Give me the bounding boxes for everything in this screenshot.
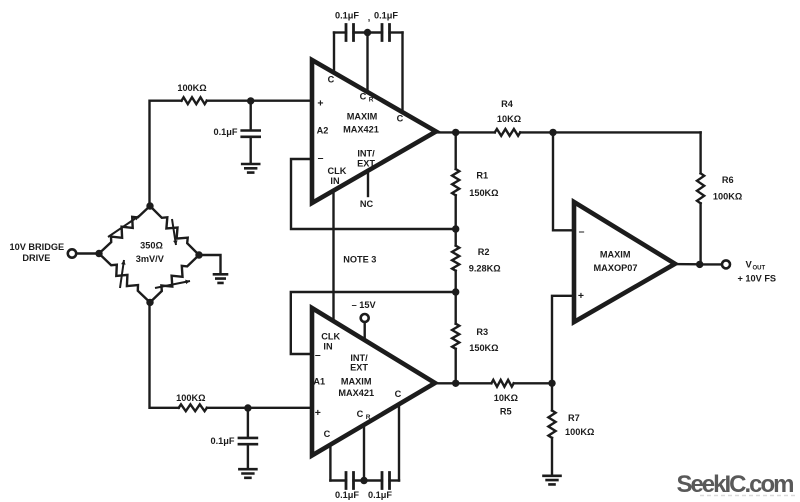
wire A1 cap network left xyxy=(330,479,346,481)
wire junction up to op07 plus xyxy=(552,296,574,384)
label A1 INT/EXT pin xyxy=(350,353,368,372)
svg-text:IN: IN xyxy=(330,176,340,186)
label 100K bottom xyxy=(176,393,205,403)
capacitor 0.1uF bottom filter xyxy=(239,438,257,444)
label 0.1uF bottom filter xyxy=(210,436,234,446)
label R7 value xyxy=(565,427,594,437)
label R7 xyxy=(568,413,580,423)
wire bridge right node to ground xyxy=(199,255,221,273)
wire feedback top to R6 xyxy=(553,131,701,133)
label R1 value xyxy=(469,188,498,198)
label comma separator xyxy=(368,12,371,22)
capacitor C1 0.1uF A2 left xyxy=(346,25,354,41)
label R5 value xyxy=(494,393,518,403)
svg-text:0.1μF: 0.1μF xyxy=(335,490,359,500)
label R3 xyxy=(476,327,488,337)
wire drive terminal to bridge left node xyxy=(76,252,99,254)
svg-text:INT/: INT/ xyxy=(357,148,375,158)
svg-text:100KΩ: 100KΩ xyxy=(177,83,206,93)
label A1 MAXIM MAX421 xyxy=(338,377,374,398)
svg-text:–: – xyxy=(318,152,324,164)
svg-text:+ 10V FS: + 10V FS xyxy=(738,273,777,283)
svg-text:0.1μF: 0.1μF xyxy=(368,490,392,500)
svg-text:10V BRIDGE: 10V BRIDGE xyxy=(9,242,64,252)
svg-text:DRIVE: DRIVE xyxy=(22,253,50,263)
wire R4 to minus node xyxy=(520,131,553,133)
svg-text:150KΩ: 150KΩ xyxy=(469,343,498,353)
svg-text:150KΩ: 150KΩ xyxy=(469,188,498,198)
svg-text:0.1μF: 0.1μF xyxy=(374,10,398,20)
wire node to R4 xyxy=(456,131,495,133)
wire R5 to plus junction xyxy=(514,382,552,384)
svg-text:R6: R6 xyxy=(722,175,734,185)
wire A1 cap network middle xyxy=(354,479,383,481)
svg-text:EXT: EXT xyxy=(350,363,368,373)
svg-text:R5: R5 xyxy=(500,407,512,417)
label A1 CLK IN pin xyxy=(321,331,340,351)
label R4 value xyxy=(497,114,521,124)
wire A1 cap network right xyxy=(390,479,400,481)
capacitor C3 0.1uF A1 left xyxy=(346,473,354,489)
node bridge left xyxy=(95,250,102,257)
svg-text:SeekIC.com: SeekIC.com xyxy=(676,471,793,498)
wire A2 output node to R1 xyxy=(455,132,457,169)
wire A1 output to node xyxy=(433,382,456,384)
svg-text:NOTE 3: NOTE 3 xyxy=(343,254,376,264)
node R5-R7 junction xyxy=(548,380,555,387)
pin A2 NC xyxy=(367,171,369,196)
resistor R3 150K xyxy=(452,324,459,349)
svg-text:MAX421: MAX421 xyxy=(338,388,374,398)
label R2 xyxy=(478,247,490,257)
svg-text:350Ω: 350Ω xyxy=(140,241,163,251)
label A2 minus input xyxy=(318,152,324,164)
svg-text:0.1μF: 0.1μF xyxy=(210,436,234,446)
op-amp A2 MAX421 triangle xyxy=(312,60,436,203)
svg-text:R7: R7 xyxy=(568,413,580,423)
svg-text:R4: R4 xyxy=(501,99,514,109)
svg-text:100KΩ: 100KΩ xyxy=(176,393,205,403)
svg-text:–: – xyxy=(579,226,585,238)
ground R7 xyxy=(544,476,561,485)
strain-gauge resistor bridge arm top-right xyxy=(150,206,199,255)
label A2 INT/EXT pin xyxy=(357,148,375,168)
label A1 CR xyxy=(357,409,371,421)
svg-text:+: + xyxy=(317,98,323,110)
node A1 cap junction xyxy=(360,477,367,484)
svg-text:R2: R2 xyxy=(478,247,490,257)
label A2 designator xyxy=(317,125,329,135)
wire junction down to op07 minus xyxy=(553,132,574,230)
node bridge right xyxy=(195,251,202,258)
node bridge bottom xyxy=(146,299,153,306)
label R5 xyxy=(500,407,512,417)
wire A1 feedback minus input to R2-R3 junction xyxy=(291,292,456,354)
watermark SeekIC.com xyxy=(676,471,797,498)
label A1 C right xyxy=(395,389,402,399)
wire filter cap to ground top xyxy=(249,137,251,164)
wire A2 output to node xyxy=(434,131,456,133)
strain-gauge resistor bridge arm bottom-right xyxy=(150,255,199,302)
wire bridge bottom node down and right to 100K resistor xyxy=(150,302,179,407)
node output xyxy=(696,261,703,268)
svg-text:100KΩ: 100KΩ xyxy=(713,191,742,201)
label A1 plus input xyxy=(315,407,321,419)
svg-text:NC: NC xyxy=(360,199,374,209)
wire R2 to junction xyxy=(455,271,457,324)
svg-text:MAXOP07: MAXOP07 xyxy=(594,263,638,273)
label R6 xyxy=(722,175,734,185)
svg-text:C: C xyxy=(324,429,331,439)
svg-text:– 15V: – 15V xyxy=(352,300,377,310)
label NC xyxy=(360,199,374,209)
svg-text:R3: R3 xyxy=(476,327,488,337)
pin A1 INT/EXT to -15V xyxy=(364,322,366,340)
label A2 plus input xyxy=(317,98,323,110)
label A1 minus input xyxy=(315,349,321,361)
strain-gauge resistor bridge arm bottom-left xyxy=(99,254,150,303)
wire node to R5 xyxy=(456,382,492,384)
wire node to filter cap bottom xyxy=(247,408,249,438)
wire op07 output to node xyxy=(673,263,700,266)
resistor R6 100K xyxy=(697,173,704,203)
node R1-R2 junction xyxy=(452,225,459,232)
label A2 CR xyxy=(360,91,374,103)
ground bridge right xyxy=(214,274,227,283)
svg-text:,: , xyxy=(368,12,371,22)
svg-text:10KΩ: 10KΩ xyxy=(494,393,518,403)
ground top filter xyxy=(242,164,259,173)
wire R7 top lead xyxy=(551,383,553,410)
resistor R2 9.28K xyxy=(452,246,459,271)
svg-text:MAXIM: MAXIM xyxy=(347,111,378,121)
svg-text:–: – xyxy=(315,349,321,361)
label 0.1uF A1 right cap xyxy=(368,490,392,500)
resistor 100K top xyxy=(182,97,207,104)
pin A1 C left xyxy=(329,445,331,481)
svg-text:C: C xyxy=(328,75,335,85)
svg-text:C: C xyxy=(395,389,402,399)
label A2 CLK IN pin xyxy=(328,166,347,186)
svg-text:C: C xyxy=(357,409,364,419)
label 0.1uF A2 left cap xyxy=(335,10,359,20)
node bridge top xyxy=(146,202,153,209)
wire A2 feedback minus input to R1-R2 junction xyxy=(291,159,456,229)
label A2 MAXIM MAX421 xyxy=(343,111,379,134)
resistor 100K bottom xyxy=(179,404,207,411)
pin A2 CR middle xyxy=(366,33,368,93)
svg-text:9.28KΩ: 9.28KΩ xyxy=(469,263,501,273)
label R3 value xyxy=(469,343,498,353)
label A2 C right xyxy=(397,113,404,123)
resistor R4 10K xyxy=(495,129,520,136)
svg-text:OUT: OUT xyxy=(753,266,766,272)
resistor R5 10K xyxy=(491,380,513,387)
label VOUT xyxy=(746,259,766,272)
node A2 cap junction xyxy=(364,29,371,36)
terminal VOUT xyxy=(722,260,730,268)
label 0.1uF top filter xyxy=(213,127,237,137)
pin A2 C right xyxy=(401,33,403,113)
terminal minus 15V supply xyxy=(361,314,369,322)
label A1 C left xyxy=(324,429,331,439)
svg-text:C: C xyxy=(397,113,404,123)
ground bottom filter xyxy=(239,469,256,478)
label 0.1uF A1 left cap xyxy=(335,490,359,500)
svg-text:CLK: CLK xyxy=(328,166,347,176)
pin A1 CR middle xyxy=(363,425,365,481)
wire A2 cap network middle xyxy=(354,31,383,33)
wire bridge top node up and right to 100K resistor xyxy=(150,101,182,206)
svg-text:+: + xyxy=(315,407,321,419)
svg-text:IN: IN xyxy=(323,341,333,351)
node A2 output xyxy=(452,129,459,136)
label bridge value 350 ohm 3mV/V xyxy=(136,241,165,264)
svg-text:R: R xyxy=(369,96,374,103)
svg-text:MAXIM: MAXIM xyxy=(341,377,372,387)
svg-text:A2: A2 xyxy=(317,125,329,135)
wire output node to terminal xyxy=(700,263,722,265)
pin A1 C right xyxy=(398,404,400,480)
label R1 xyxy=(476,170,488,180)
svg-text:C: C xyxy=(360,91,367,101)
label MAXIM MAXOP07 xyxy=(594,249,638,272)
resistor R1 150K xyxy=(452,169,459,195)
label R6 value xyxy=(713,191,742,201)
label R4 xyxy=(501,99,514,109)
label NOTE 3 xyxy=(343,254,376,264)
wire A2 cap network left xyxy=(334,31,346,33)
op-amp U3 MAXOP07 triangle xyxy=(574,202,675,322)
wire R3 to A1 output node xyxy=(455,349,457,384)
label +10V FS xyxy=(738,273,777,283)
svg-text:MAXIM: MAXIM xyxy=(600,249,631,259)
pin A2 C left xyxy=(333,33,335,73)
svg-text:EXT: EXT xyxy=(357,158,375,168)
node A2 plus input filter xyxy=(247,97,254,104)
wire node to filter cap top xyxy=(249,101,251,130)
wire R7 bottom lead xyxy=(551,438,553,476)
capacitor C2 0.1uF A2 right xyxy=(382,25,390,41)
label op07 plus input xyxy=(578,290,584,302)
wire filter cap to ground bottom xyxy=(247,444,249,469)
wire R1 to junction xyxy=(455,195,457,245)
strain-gauge resistor bridge arm top-left xyxy=(99,206,150,254)
label 100K top xyxy=(177,83,206,93)
wire A2 cap network right xyxy=(390,31,403,33)
label op07 minus input xyxy=(579,226,585,238)
svg-text:V: V xyxy=(746,259,753,270)
svg-text:10KΩ: 10KΩ xyxy=(497,114,521,124)
svg-text:MAX421: MAX421 xyxy=(343,124,379,134)
svg-text:0.1μF: 0.1μF xyxy=(335,10,359,20)
label A1 designator xyxy=(313,377,325,387)
svg-text:R1: R1 xyxy=(476,170,488,180)
wire 100K to A2 + input xyxy=(207,99,312,101)
label A2 C left xyxy=(328,75,335,85)
svg-text:R: R xyxy=(366,414,371,421)
svg-text:A1: A1 xyxy=(313,377,325,387)
svg-text:100KΩ: 100KΩ xyxy=(565,427,594,437)
wire R6 bottom lead to output node xyxy=(699,203,701,264)
label R2 value xyxy=(469,263,501,273)
label minus 15V xyxy=(352,300,377,310)
node A1 output xyxy=(452,380,459,387)
capacitor C4 0.1uF A1 right xyxy=(382,473,390,489)
svg-text:+: + xyxy=(578,290,584,302)
resistor R7 100K xyxy=(548,411,555,438)
wire R6 top lead xyxy=(699,132,701,173)
op-amp A1 MAX421 triangle xyxy=(312,308,435,456)
wire CLK IN A2 to CLK IN A1 NOTE 3 xyxy=(332,191,334,322)
node A1 plus input filter xyxy=(244,404,251,411)
label 0.1uF A2 right cap xyxy=(374,10,398,20)
node R2-R3 junction xyxy=(452,288,459,295)
svg-text:0.1μF: 0.1μF xyxy=(213,127,237,137)
capacitor 0.1uF top filter xyxy=(242,131,260,137)
terminal bridge drive xyxy=(68,249,76,257)
svg-text:CLK: CLK xyxy=(321,331,340,341)
wire 100K to A1 + input xyxy=(207,407,312,409)
svg-text:3mV/V: 3mV/V xyxy=(136,254,165,264)
node R4 feedback junction xyxy=(549,129,556,136)
label 10V BRIDGE DRIVE xyxy=(9,242,64,263)
